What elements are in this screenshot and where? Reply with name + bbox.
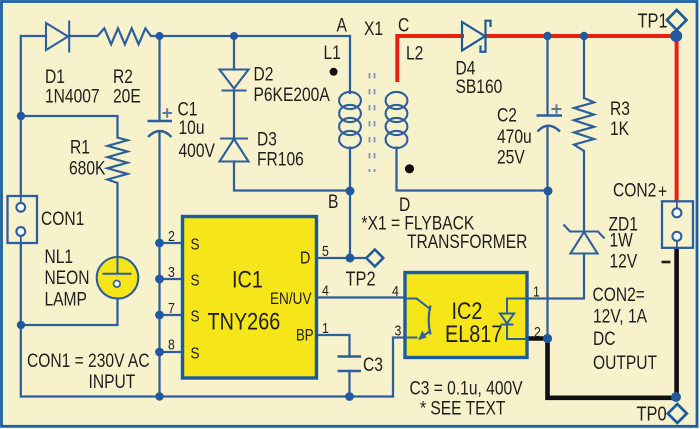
svg-text:D: D xyxy=(300,248,310,268)
svg-text:3: 3 xyxy=(395,323,402,339)
svg-text:TP2: TP2 xyxy=(346,267,376,290)
svg-text:CON1: CON1 xyxy=(41,207,84,229)
wire: L2 top to D4 anode (red, output rail) xyxy=(397,36,462,80)
junction: C1 positive on top rail xyxy=(156,32,164,40)
svg-text:D2: D2 xyxy=(254,63,274,85)
IC2 internal LED xyxy=(500,299,527,340)
op-amp U1 / IC1 TNY266 body xyxy=(183,217,317,379)
svg-text:OUTPUT: OUTPUT xyxy=(593,351,657,373)
wire: D4 cathode to TP1 node and CON2 plus (red) xyxy=(487,36,677,202)
wire: C2 negative to secondary return node xyxy=(546,126,548,191)
connector CON1 xyxy=(8,196,38,243)
svg-text:X1: X1 xyxy=(364,17,383,39)
svg-text:C3: C3 xyxy=(363,353,383,375)
svg-text:R1: R1 xyxy=(70,136,90,158)
C2 polarity plus xyxy=(552,104,562,114)
svg-text:BP: BP xyxy=(296,326,314,345)
junction: secondary return at C2 negative xyxy=(544,187,553,196)
wire: D2 cathode to D3 cathode xyxy=(233,91,235,139)
svg-text:CON2=: CON2= xyxy=(593,283,645,305)
node TP0 junction xyxy=(671,392,681,402)
svg-text:S: S xyxy=(191,237,200,254)
svg-text:CON1 = 230V AC: CON1 = 230V AC xyxy=(27,349,150,371)
wire: CON2 minus down to TP0 node (black) xyxy=(674,248,679,397)
resistor R3 xyxy=(574,98,594,151)
wire: IC2 pin 2 stub to output negative node (black) xyxy=(527,336,548,340)
diode D4 (schottky) xyxy=(462,21,491,52)
transformer X1 primary winding L1 xyxy=(339,92,361,148)
svg-text:+: + xyxy=(658,180,667,202)
svg-text:R3: R3 xyxy=(610,97,630,119)
capacitor C1 xyxy=(148,121,173,137)
transformer X1 core xyxy=(370,73,375,172)
svg-text:C: C xyxy=(398,14,409,36)
capacitor C2 xyxy=(537,116,563,132)
label CON2 minus terminal xyxy=(662,261,671,264)
diode D1 xyxy=(46,21,69,53)
svg-text:L1: L1 xyxy=(324,41,341,63)
svg-text:B: B xyxy=(328,190,338,212)
wire: bottom bus primary return xyxy=(21,395,393,397)
wire: secondary return down to IC2 pin 2 node xyxy=(546,191,548,339)
svg-text:1K: 1K xyxy=(610,117,629,139)
svg-text:S: S xyxy=(191,309,200,326)
svg-text:4: 4 xyxy=(322,283,329,299)
wire: IC1 source pin 2 stub xyxy=(160,242,183,244)
neon lamp NL1 xyxy=(97,257,139,299)
wire: R3 bottom to ZD1 cathode xyxy=(583,151,585,232)
junction: R1 tap on AC live xyxy=(17,112,25,120)
svg-text:TP0: TP0 xyxy=(637,402,667,425)
svg-text:IC1: IC1 xyxy=(232,266,263,293)
svg-text:7: 7 xyxy=(168,300,175,316)
wire: IC1 source pin 8 stub xyxy=(160,351,183,353)
wire: C1 negative down to bottom bus xyxy=(158,132,160,397)
svg-text:1: 1 xyxy=(533,284,540,300)
svg-text:5: 5 xyxy=(322,243,329,259)
test point TP0 diamond xyxy=(668,404,687,423)
L1 phase dot xyxy=(330,68,338,76)
svg-text:NEON: NEON xyxy=(45,266,90,288)
svg-text:3: 3 xyxy=(168,264,175,280)
wire: C3 bottom to bottom bus xyxy=(348,371,350,397)
wire: AC neutral from CON1 down to bottom bus xyxy=(20,243,22,397)
svg-text:25V: 25V xyxy=(497,146,525,168)
wire: IC1 EN/UV pin 4 to IC2 pin 4 xyxy=(317,296,406,298)
svg-text:FR106: FR106 xyxy=(257,148,304,170)
connector CON2 xyxy=(662,201,693,248)
junction: NL1 return on AC neutral xyxy=(17,321,25,329)
svg-text:DC: DC xyxy=(593,327,616,349)
wire: ZD1 anode to IC2 pin 1 xyxy=(527,254,584,299)
diode D3 xyxy=(220,139,249,162)
svg-text:C3 = 0.1u, 400V: C3 = 0.1u, 400V xyxy=(410,377,523,399)
test point TP2 diamond xyxy=(366,250,383,267)
svg-text:4: 4 xyxy=(392,283,399,299)
junction: C2 positive on output rail xyxy=(543,32,551,40)
wire: output rail down to C2 positive xyxy=(546,36,548,116)
diode D2 (transient suppressor) xyxy=(220,70,249,91)
zener diode ZD1 xyxy=(564,225,605,254)
wire: R1 bottom to NL1 top xyxy=(116,183,118,260)
junction: C3 on bottom bus xyxy=(345,392,354,401)
wire: node B down to TNY266 drain node xyxy=(349,191,351,258)
svg-text:TP1: TP1 xyxy=(638,9,668,32)
svg-text:A: A xyxy=(337,14,348,36)
junction: R3 on output rail xyxy=(580,32,588,40)
wire: IC1 BP pin 1 to C3 top xyxy=(317,335,350,357)
node B junction xyxy=(346,187,355,196)
junction: clamp D2 on top rail xyxy=(230,32,238,40)
IC2 internal phototransistor xyxy=(405,299,431,340)
svg-text:680K: 680K xyxy=(69,157,106,179)
wire: output rail down to R3 top xyxy=(583,36,585,98)
resistor R1 xyxy=(108,138,128,184)
svg-text:12V: 12V xyxy=(610,250,638,272)
svg-text:8: 8 xyxy=(168,337,175,353)
junction: IC1 pin7 on source rail xyxy=(155,311,164,320)
capacitor C3 xyxy=(338,357,362,372)
svg-text:2: 2 xyxy=(534,324,541,340)
wire: IC1 source pin 7 stub xyxy=(160,314,183,316)
C1 polarity plus xyxy=(163,108,173,117)
svg-text:D3: D3 xyxy=(257,128,277,150)
svg-text:TRANSFORMER: TRANSFORMER xyxy=(407,230,527,252)
svg-text:C2: C2 xyxy=(497,104,517,126)
svg-text:SB160: SB160 xyxy=(456,75,503,97)
svg-text:1N4007: 1N4007 xyxy=(45,85,100,107)
svg-text:EN/UV: EN/UV xyxy=(270,290,312,309)
wire: clamp branch from top rail to D2 xyxy=(233,36,235,70)
svg-text:10u: 10u xyxy=(179,116,205,138)
svg-text:1: 1 xyxy=(322,320,329,336)
wire: top rail to D1 anode xyxy=(21,35,46,37)
svg-text:INPUT: INPUT xyxy=(89,370,136,392)
wire: R2 to C1 node, clamp node and node A corner xyxy=(151,35,350,37)
svg-text:EL817: EL817 xyxy=(445,320,502,347)
svg-text:S: S xyxy=(191,346,200,363)
wire: L1 bottom to node B xyxy=(349,148,351,192)
wire: D3 anode to node B xyxy=(234,162,350,191)
node TP1 junction on output rail xyxy=(670,30,682,42)
wire: C1 positive from top rail xyxy=(158,36,160,121)
svg-text:20E: 20E xyxy=(113,85,141,107)
IC2 EL817 body xyxy=(405,273,527,358)
svg-text:CON2: CON2 xyxy=(613,179,656,201)
wire: bottom bus up to IC2 pin 3 xyxy=(393,338,405,397)
svg-text:12V, 1A: 12V, 1A xyxy=(593,305,647,327)
wire: AC live from top rail down to CON1 xyxy=(20,36,22,196)
wire: IC1 source pin 3 stub xyxy=(160,278,183,280)
resistor R2 xyxy=(98,28,152,44)
wire: R1 branch from AC live xyxy=(21,116,118,138)
L2 phase dot xyxy=(405,164,414,173)
test point TP1 diamond xyxy=(667,10,687,30)
svg-text:2: 2 xyxy=(168,228,175,244)
svg-text:TNY266: TNY266 xyxy=(208,308,281,335)
svg-text:* SEE TEXT: * SEE TEXT xyxy=(420,397,506,419)
wire: output negative run to TP0 node (black) xyxy=(548,339,677,398)
svg-text:1W: 1W xyxy=(610,229,634,251)
svg-text:NL1: NL1 xyxy=(45,245,74,267)
junction: IC2 pin2 output negative node xyxy=(543,334,552,343)
svg-text:LAMP: LAMP xyxy=(45,288,87,310)
wire: node A down to L1 top xyxy=(349,36,351,93)
junction: IC1 pin3 on source rail xyxy=(155,275,164,284)
svg-text:L2: L2 xyxy=(406,42,423,64)
svg-text:400V: 400V xyxy=(179,139,216,161)
junction: IC1 pin8 on source rail xyxy=(155,348,164,357)
svg-text:P6KE200A: P6KE200A xyxy=(254,83,330,105)
wire: D1 cathode to R2 xyxy=(69,35,98,37)
svg-text:470u: 470u xyxy=(497,125,532,147)
svg-text:S: S xyxy=(191,273,200,290)
transformer X1 secondary winding L2 xyxy=(386,92,408,148)
junction: C1 negative on bottom bus xyxy=(155,392,163,400)
wire: L2 bottom to secondary return node xyxy=(397,148,548,191)
junction: IC1 pin2 on source rail xyxy=(155,239,164,248)
wire: NL1 bottom return to AC neutral xyxy=(21,295,118,325)
wire: IC1 drain pin 5 stub to TP2 xyxy=(317,257,367,259)
junction: drain node at TP2 xyxy=(346,254,355,263)
